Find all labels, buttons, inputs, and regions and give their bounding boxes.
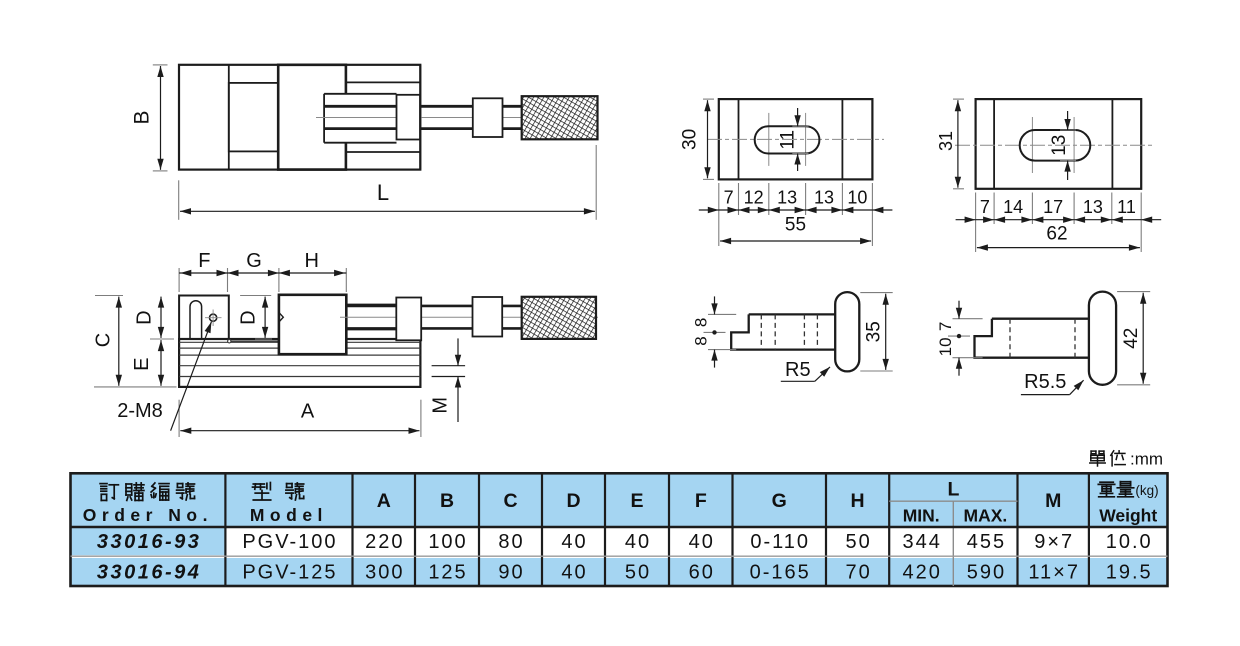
svg-text:50: 50	[845, 531, 871, 553]
svg-text:344: 344	[903, 531, 942, 553]
svg-text:R5.5: R5.5	[1024, 371, 1066, 393]
svg-text:7: 7	[936, 322, 955, 331]
svg-text:12: 12	[744, 188, 764, 208]
svg-text:2-M8: 2-M8	[117, 400, 163, 422]
svg-text:F: F	[695, 490, 707, 512]
svg-text:11: 11	[1117, 197, 1136, 217]
svg-text:33016-94: 33016-94	[97, 562, 202, 584]
svg-text:90: 90	[498, 562, 524, 584]
svg-text:PGV-100: PGV-100	[242, 531, 337, 553]
svg-text:300: 300	[365, 562, 404, 584]
svg-text:L: L	[377, 180, 389, 205]
svg-text:10: 10	[936, 337, 955, 356]
svg-text:40: 40	[561, 531, 587, 553]
svg-text:60: 60	[689, 562, 715, 584]
svg-text:14: 14	[1003, 197, 1023, 217]
svg-text:590: 590	[967, 562, 1006, 584]
svg-text:B: B	[440, 490, 454, 512]
svg-text:13: 13	[814, 188, 834, 208]
svg-text:M: M	[1045, 490, 1061, 512]
svg-text:30: 30	[680, 129, 701, 150]
svg-text:MIN.: MIN.	[903, 506, 940, 526]
svg-text:M: M	[430, 397, 452, 414]
svg-text:70: 70	[845, 562, 871, 584]
svg-text:A: A	[301, 401, 315, 423]
svg-text:Order No.: Order No.	[83, 505, 213, 525]
svg-text:13: 13	[1083, 197, 1103, 217]
svg-text:Model: Model	[250, 505, 328, 525]
svg-text:7: 7	[724, 188, 734, 208]
svg-text:125: 125	[428, 562, 467, 584]
svg-text:19.5: 19.5	[1106, 562, 1153, 584]
svg-text:8: 8	[692, 318, 711, 327]
svg-text:40: 40	[689, 531, 715, 553]
svg-text:100: 100	[428, 531, 467, 553]
svg-text:G: G	[246, 250, 262, 272]
svg-text:PGV-125: PGV-125	[242, 562, 337, 584]
svg-text:11: 11	[777, 130, 798, 150]
svg-text:11×7: 11×7	[1028, 562, 1080, 584]
svg-text:Weight: Weight	[1099, 506, 1157, 526]
svg-text:10: 10	[847, 188, 867, 208]
svg-text:50: 50	[625, 562, 651, 584]
svg-text:13: 13	[1049, 135, 1070, 156]
svg-text:F: F	[198, 250, 210, 272]
svg-text:R5: R5	[785, 359, 811, 381]
svg-text:220: 220	[365, 531, 404, 553]
svg-text:D: D	[238, 310, 260, 324]
svg-text:13: 13	[777, 188, 797, 208]
svg-text:10.0: 10.0	[1106, 531, 1153, 553]
svg-text:MAX.: MAX.	[964, 506, 1008, 526]
svg-text:35: 35	[864, 321, 885, 342]
svg-text:7: 7	[980, 197, 990, 217]
svg-text:9×7: 9×7	[1034, 531, 1074, 553]
svg-text:40: 40	[625, 531, 651, 553]
svg-text:33016-93: 33016-93	[97, 531, 202, 553]
svg-text:D: D	[134, 310, 156, 324]
svg-text:C: C	[93, 333, 115, 347]
svg-text:B: B	[131, 110, 154, 124]
svg-text:G: G	[772, 490, 787, 512]
svg-text:17: 17	[1043, 197, 1063, 217]
svg-text:31: 31	[936, 131, 956, 151]
svg-text:42: 42	[1121, 328, 1142, 349]
svg-text:(kg): (kg)	[1135, 483, 1158, 498]
svg-text:0-110: 0-110	[750, 531, 810, 553]
svg-text:80: 80	[498, 531, 524, 553]
svg-text:420: 420	[903, 562, 942, 584]
svg-text:H: H	[851, 490, 865, 512]
svg-text:40: 40	[561, 562, 587, 584]
svg-text:D: D	[566, 490, 580, 512]
svg-text::mm: :mm	[1130, 450, 1163, 469]
svg-text:E: E	[131, 358, 153, 371]
svg-text:L: L	[947, 479, 959, 501]
svg-text:A: A	[377, 490, 391, 512]
svg-text:8: 8	[692, 336, 711, 345]
svg-text:0-165: 0-165	[750, 562, 811, 584]
svg-text:455: 455	[967, 531, 1006, 553]
svg-text:C: C	[503, 490, 517, 512]
svg-text:55: 55	[785, 215, 806, 236]
svg-text:E: E	[630, 490, 643, 512]
svg-text:H: H	[304, 250, 318, 272]
svg-text:62: 62	[1046, 223, 1067, 244]
